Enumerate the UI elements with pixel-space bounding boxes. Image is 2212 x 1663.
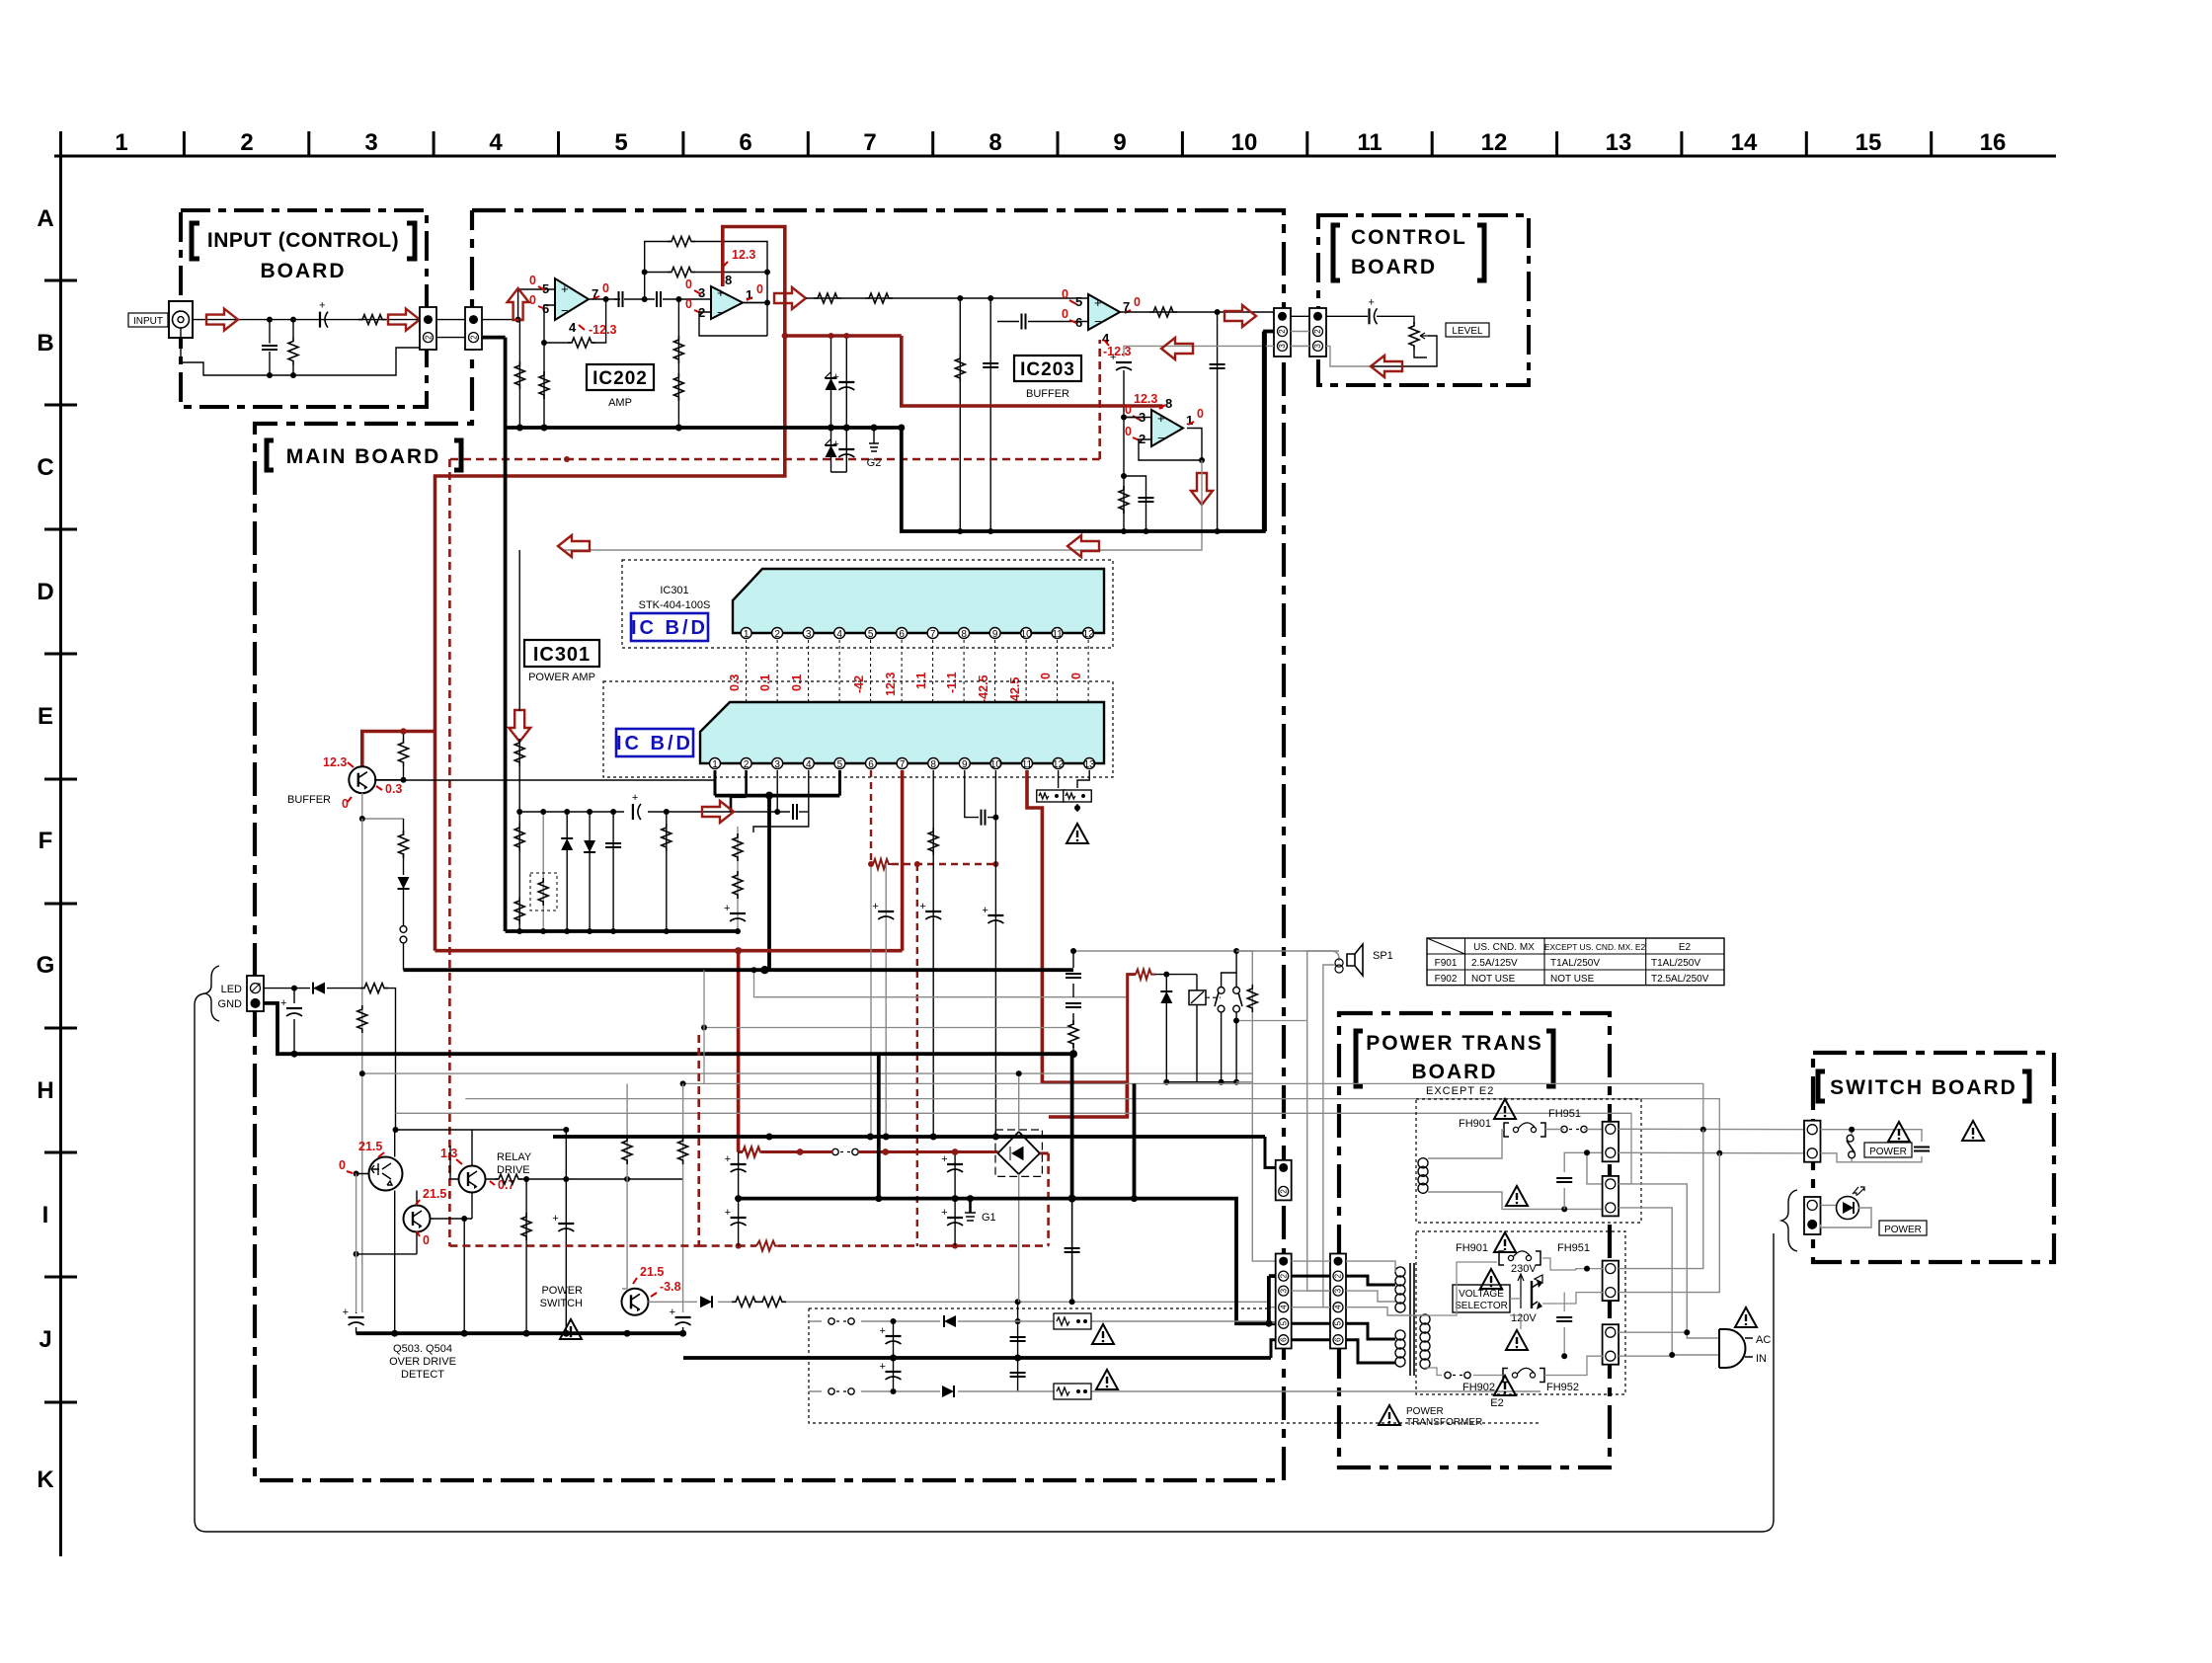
svg-text:4: 4 xyxy=(836,629,842,640)
maroon bus row F xyxy=(435,949,903,953)
ecap row1 xyxy=(880,1321,902,1358)
svg-text:0: 0 xyxy=(1069,673,1083,679)
svg-text:2: 2 xyxy=(774,629,780,640)
cap between xyxy=(1556,1152,1603,1209)
svg-text:−: − xyxy=(561,303,569,318)
pin labels U203b xyxy=(1139,396,1193,446)
POWER TRANSFORMER warn label xyxy=(1379,1405,1482,1428)
connector control board side CN xyxy=(1309,308,1326,356)
svg-text:LEVEL: LEVEL xyxy=(1452,326,1483,337)
svg-text:8: 8 xyxy=(961,629,967,640)
svg-text:+: + xyxy=(1157,411,1165,426)
svg-text:-42.5: -42.5 xyxy=(977,674,990,703)
bus 943 bank bottom xyxy=(506,929,738,933)
svg-text:BUFFER: BUFFER xyxy=(287,794,331,806)
row2 wire xyxy=(809,1390,1540,1392)
bus J left xyxy=(356,1331,683,1335)
wire col 713 xyxy=(703,970,705,1083)
bank: diode down xyxy=(584,809,595,934)
G2 ground xyxy=(867,428,882,469)
output wire w resistor xyxy=(1120,312,1274,316)
svg-text:STK-404-100S: STK-404-100S xyxy=(639,599,711,611)
svg-text:FH952: FH952 xyxy=(1546,1382,1579,1393)
svg-text:5: 5 xyxy=(1075,294,1082,309)
Q503 transistor xyxy=(369,1157,403,1191)
control board outline xyxy=(1318,215,1529,385)
IC202 designator xyxy=(587,364,654,409)
coil wiring xyxy=(1428,1130,1603,1159)
svg-text:2: 2 xyxy=(1279,1189,1288,1194)
svg-text:IC202: IC202 xyxy=(592,368,648,389)
LED wiring xyxy=(1821,1205,1872,1227)
svg-text:+: + xyxy=(1094,295,1102,310)
bank: cap xyxy=(605,809,621,934)
warn above AC IN xyxy=(1735,1307,1757,1327)
svg-text:FH901: FH901 xyxy=(1459,1118,1491,1130)
contact bottom rail xyxy=(1166,1081,1236,1083)
wires between connectors xyxy=(1291,315,1309,317)
svg-text:0: 0 xyxy=(529,274,536,287)
pin7 maroon xyxy=(901,770,905,951)
cap on gray drop xyxy=(1110,352,1145,421)
pin labels U202a xyxy=(542,281,598,335)
svg-text:IC301: IC301 xyxy=(660,585,688,596)
svg-text:1.3: 1.3 xyxy=(440,1147,457,1160)
wire conn to opamp xyxy=(482,289,555,320)
bank: resistor right xyxy=(662,809,671,934)
emitter long gray south xyxy=(361,819,363,1312)
svg-text:F: F xyxy=(39,828,53,854)
svg-text:7: 7 xyxy=(930,629,936,640)
svg-text:2.5A/125V: 2.5A/125V xyxy=(1471,958,1518,969)
maroon resistor after col747 xyxy=(739,1150,796,1153)
maroon coil feed xyxy=(1128,975,1136,1117)
red annots U203a xyxy=(1062,287,1141,358)
emitter wire down xyxy=(362,793,404,819)
right connectors CN (4x 2pin) xyxy=(1603,1122,1619,1365)
INPUT label xyxy=(128,313,168,327)
svg-text:1: 1 xyxy=(712,759,718,770)
svg-text:3: 3 xyxy=(806,629,812,640)
svg-text:5: 5 xyxy=(614,129,627,156)
bank: diode up xyxy=(561,809,573,934)
speaker wire 1 down xyxy=(1307,951,1339,1291)
pin8 column xyxy=(919,770,941,1140)
switch board title xyxy=(1818,1071,2029,1101)
svg-text:BOARD: BOARD xyxy=(261,260,347,282)
svg-text:INPUT: INPUT xyxy=(133,316,163,327)
pin6 gray continuation xyxy=(870,864,872,1137)
relay protection diode xyxy=(1160,975,1172,1085)
pin12 boxed resistor xyxy=(1037,770,1066,802)
svg-text:TRANSFORMER: TRANSFORMER xyxy=(1406,1417,1482,1428)
maroon out right dashed down xyxy=(1040,1151,1049,1154)
resistor col feeding rail xyxy=(514,550,524,815)
dashed vertical mid xyxy=(916,864,918,1246)
svg-text:8: 8 xyxy=(1165,396,1172,411)
rail row F with arrow and series cap xyxy=(519,811,790,813)
control board title xyxy=(1333,225,1484,280)
E2 dotted box xyxy=(1416,1231,1625,1394)
svg-text:AC: AC xyxy=(1756,1334,1771,1346)
svg-text:4: 4 xyxy=(1334,1305,1343,1309)
arrow left xyxy=(1371,356,1402,377)
svg-text:NOT USE: NOT USE xyxy=(1471,974,1516,985)
resistor xyxy=(360,984,388,993)
svg-text:3: 3 xyxy=(774,759,780,770)
svg-text:4: 4 xyxy=(806,759,812,770)
plug row1 xyxy=(829,1318,854,1324)
wire return xyxy=(181,337,420,375)
svg-text:0: 0 xyxy=(685,277,692,291)
power switch circuit xyxy=(1821,1127,1923,1162)
svg-text:−: − xyxy=(1157,431,1165,445)
pin3 wire xyxy=(776,770,778,812)
base wire xyxy=(375,779,403,781)
arrow to control board xyxy=(1224,305,1256,327)
series cap pin3-pin4 xyxy=(793,804,797,820)
pin9 cap to pin10 xyxy=(965,770,996,826)
wires between connector cols xyxy=(1292,1261,1330,1307)
relay drive wires xyxy=(450,1130,494,1219)
svg-text:7: 7 xyxy=(863,129,876,156)
svg-text:12.3: 12.3 xyxy=(1134,392,1157,406)
red leader marks xyxy=(538,286,599,330)
base resistor xyxy=(399,728,409,782)
selector contact xyxy=(1532,1280,1542,1309)
row letters xyxy=(37,205,55,1493)
IC301 boxed designator xyxy=(524,640,599,683)
red annots Q503 xyxy=(339,1140,382,1172)
warning under boxed resistors xyxy=(1066,824,1088,843)
svg-text:12: 12 xyxy=(1053,759,1065,770)
svg-text:5: 5 xyxy=(868,629,874,640)
svg-text:0.1: 0.1 xyxy=(758,674,772,691)
fusible resistor row2 xyxy=(1054,1384,1091,1399)
column ticks xyxy=(184,131,1931,156)
top ruler line xyxy=(54,155,2056,158)
LEVEL pot xyxy=(1371,322,1437,366)
feedback network above (two resistors) xyxy=(642,237,770,300)
op-amp U203b triangle xyxy=(1151,410,1183,446)
gray col right xyxy=(670,1083,691,1333)
selector arrow xyxy=(1518,1274,1524,1308)
6pin connector col1 CN xyxy=(1276,1254,1292,1349)
maroon resistor xyxy=(1136,970,1155,980)
transformer core xyxy=(1410,1263,1414,1376)
maroon loop op-amp U202b pin8 xyxy=(435,227,785,951)
bridge bottom wire xyxy=(1018,1174,1020,1302)
FH901 fuse E2 xyxy=(1456,1242,1590,1265)
Q504 transistor xyxy=(404,1206,431,1232)
thick return from pin2 down xyxy=(1265,332,1274,532)
caps on 1087 col xyxy=(1066,951,1081,1054)
IC B/D label lower xyxy=(616,729,693,756)
shunt res and cap xyxy=(1119,418,1154,535)
svg-text:0: 0 xyxy=(756,282,763,296)
svg-text:SWITCH: SWITCH xyxy=(540,1298,583,1309)
pin1 wire xyxy=(714,770,717,796)
6pin connector col2 CN xyxy=(1330,1254,1346,1349)
svg-text:POWER: POWER xyxy=(541,1285,583,1297)
left ruler line xyxy=(59,131,62,1556)
PS output chain xyxy=(649,1302,1276,1307)
svg-text:0.1: 0.1 xyxy=(790,674,804,691)
wires 6pin col2 to transformer xyxy=(1346,1276,1395,1285)
svg-text:E2: E2 xyxy=(1490,1397,1503,1409)
down arrow xyxy=(1191,473,1213,505)
POWER label switch xyxy=(1864,1143,1912,1157)
inline plug xyxy=(1561,1126,1587,1132)
vert components to bus xyxy=(521,1179,531,1333)
shunt cap from output junction xyxy=(1210,312,1225,534)
AC lines to switch board xyxy=(1619,1128,1804,1130)
bridge rectifier D901 xyxy=(995,1130,1042,1176)
down arrow into resistor column xyxy=(509,710,530,742)
svg-text:3: 3 xyxy=(1278,344,1287,349)
svg-text:IN: IN xyxy=(1756,1353,1767,1365)
arrow out xyxy=(388,309,420,331)
col resistors caps right of bank xyxy=(724,827,746,934)
secondary wiring E2 xyxy=(1425,1258,1576,1315)
speaker return to connector xyxy=(1236,1082,1276,1261)
svg-text:F901: F901 xyxy=(1435,958,1458,969)
svg-text:Q503. Q504: Q503. Q504 xyxy=(393,1343,452,1355)
svg-text:3: 3 xyxy=(1279,1288,1288,1293)
pin5 wire xyxy=(838,770,841,796)
Q503 wires xyxy=(356,1130,395,1333)
svg-text:GND: GND xyxy=(218,998,243,1010)
dotted enclosure xyxy=(809,1308,1540,1423)
svg-text:6: 6 xyxy=(1334,1337,1343,1342)
red annots U203b xyxy=(1125,403,1204,438)
row ticks xyxy=(44,280,77,1402)
gray link to SP columns xyxy=(1236,1020,1307,1022)
svg-text:21.5: 21.5 xyxy=(640,1265,664,1279)
svg-text:FH951: FH951 xyxy=(1557,1242,1590,1254)
transformer primary coils xyxy=(1395,1267,1405,1312)
maroon dashed rail row C xyxy=(450,340,1100,459)
wire pin2 connector2 xyxy=(1587,1152,1603,1184)
maroon branch to 340 rail xyxy=(785,334,902,338)
svg-text:120V: 120V xyxy=(1511,1312,1537,1324)
inline plug maroon xyxy=(832,1148,858,1154)
chain res diode plug xyxy=(398,819,410,970)
warnings xyxy=(560,1319,582,1339)
diode row1 xyxy=(944,1315,956,1327)
IC B/D label upper xyxy=(631,613,708,641)
svg-text:12: 12 xyxy=(1083,629,1095,640)
output wire xyxy=(589,298,620,300)
svg-text:12: 12 xyxy=(1481,129,1508,156)
svg-text:13: 13 xyxy=(1084,759,1096,770)
FH901 fuse xyxy=(1459,1108,1581,1137)
maroon dashed vertical left xyxy=(448,459,451,1246)
svg-text:0: 0 xyxy=(529,293,536,307)
dashed maroon row J xyxy=(449,1244,1048,1247)
svg-text:MAIN BOARD: MAIN BOARD xyxy=(286,445,441,468)
svg-text:0: 0 xyxy=(339,1158,346,1172)
bank: resistor xyxy=(514,812,524,934)
svg-text:IC B/D: IC B/D xyxy=(616,733,693,754)
svg-text:3: 3 xyxy=(364,129,377,156)
svg-text:11: 11 xyxy=(1022,759,1033,770)
svg-text:LED: LED xyxy=(221,984,242,995)
svg-text:CONTROL: CONTROL xyxy=(1351,226,1467,249)
gray col to PS base xyxy=(622,1083,632,1289)
svg-text:5: 5 xyxy=(1334,1320,1343,1325)
cap in switch loop xyxy=(1914,1148,1930,1151)
main board title xyxy=(267,440,461,470)
svg-text:2: 2 xyxy=(744,759,750,770)
series caps xyxy=(614,298,711,300)
svg-text:NOT USE: NOT USE xyxy=(1550,974,1595,985)
svg-text:11: 11 xyxy=(1357,129,1382,156)
svg-text:-42: -42 xyxy=(852,675,866,693)
series electrolytic cap xyxy=(319,300,328,328)
svg-text:6: 6 xyxy=(899,629,905,640)
svg-text:POWER: POWER xyxy=(1406,1406,1444,1417)
red annot 12.3 xyxy=(1134,392,1157,406)
dashed rail with resistor xyxy=(871,859,998,869)
verticals to lower connectors xyxy=(1619,1130,1703,1269)
IC301 lower package body xyxy=(700,702,1104,763)
long return wire down-left xyxy=(195,993,1774,1532)
brace xyxy=(205,966,219,1021)
emitter resistor on gray col xyxy=(357,1005,367,1033)
svg-text:10: 10 xyxy=(1231,129,1258,156)
fusible resistor row1 xyxy=(1054,1313,1091,1329)
svg-text:C: C xyxy=(37,454,53,481)
svg-text:FH902: FH902 xyxy=(1462,1382,1495,1393)
series ecap xyxy=(1326,316,1414,324)
bus row D thick xyxy=(902,332,1264,532)
wire 1144 xyxy=(396,1129,567,1131)
svg-text:1: 1 xyxy=(744,629,750,640)
inter-pin dashed columns xyxy=(747,640,1089,756)
pin13 boxed resistor xyxy=(1064,770,1092,812)
pin11 maroon to power xyxy=(1027,770,1127,1117)
Q504 wires xyxy=(356,1191,472,1254)
svg-text:2: 2 xyxy=(1334,1273,1343,1278)
gray line G right xyxy=(362,1072,1253,1074)
feedback resistor U202a xyxy=(541,299,606,428)
svg-text:0: 0 xyxy=(1197,407,1204,421)
relay drive transistor xyxy=(459,1166,486,1193)
svg-text:SWITCH BOARD: SWITCH BOARD xyxy=(1830,1076,2017,1099)
speaker wire 2 xyxy=(1323,965,1335,1307)
svg-text:6: 6 xyxy=(1279,1337,1288,1342)
2pin connector upper CN xyxy=(1276,1160,1292,1201)
dashed maroon vertical mid xyxy=(697,1035,700,1246)
relay contact 1 xyxy=(1215,973,1236,1082)
ecaps col 967 xyxy=(941,1148,963,1246)
thick bus pins 1-5 xyxy=(715,794,839,798)
connector CN on input board xyxy=(420,307,436,350)
brace xyxy=(1781,1190,1797,1251)
svg-text:FH951: FH951 xyxy=(1548,1108,1581,1120)
svg-text:H: H xyxy=(37,1077,53,1104)
LED GND connector xyxy=(247,976,264,1011)
svg-text:BUFFER: BUFFER xyxy=(1026,388,1069,400)
pin2 wire L xyxy=(731,770,747,812)
gray column near pin7 xyxy=(872,864,894,1140)
feedback loop pin2 xyxy=(1139,429,1202,461)
gray return line to main xyxy=(1124,346,1309,356)
bank: dotted-box resistor xyxy=(530,809,557,934)
svg-text:K: K xyxy=(37,1466,54,1493)
op-amp U202a xyxy=(555,278,589,320)
svg-text:9: 9 xyxy=(1113,129,1126,156)
svg-text:2: 2 xyxy=(1278,329,1287,334)
shunt res col xyxy=(955,298,965,534)
svg-text:-1.1: -1.1 xyxy=(945,672,959,693)
svg-text:10: 10 xyxy=(1021,629,1033,640)
svg-text:0: 0 xyxy=(1062,307,1068,321)
connector CN on main board xyxy=(465,307,482,350)
pin6 wire xyxy=(1271,1340,1276,1358)
cap right mid xyxy=(1556,1266,1590,1360)
connector to control board CN xyxy=(1274,308,1291,356)
svg-text:15: 15 xyxy=(1856,129,1882,156)
thick verticals xyxy=(877,1054,881,1198)
svg-text:14: 14 xyxy=(1731,129,1758,156)
svg-text:US. CND. MX: US. CND. MX xyxy=(1473,942,1535,953)
op-amp U203a xyxy=(1088,294,1120,330)
wire row 1040 xyxy=(704,1027,1073,1029)
row1 wire xyxy=(809,1321,1276,1323)
speaker SP1 xyxy=(1335,944,1393,976)
wire to relay xyxy=(1155,974,1197,976)
zener and cap pair lower xyxy=(825,428,854,472)
thick bus I xyxy=(739,1199,1276,1324)
LED connector CN xyxy=(1804,1197,1821,1234)
cap bottom left xyxy=(343,1307,364,1333)
svg-text:6: 6 xyxy=(739,129,751,156)
svg-text:0: 0 xyxy=(342,797,349,811)
red annots PS xyxy=(640,1265,681,1294)
svg-text:E: E xyxy=(38,703,53,730)
shunt ecap xyxy=(280,989,302,1058)
svg-text:T1AL/250V: T1AL/250V xyxy=(1651,958,1700,969)
svg-text:2: 2 xyxy=(424,335,433,340)
svg-text:10: 10 xyxy=(990,759,1002,770)
feed to upper 2pin xyxy=(1265,1137,1276,1167)
svg-text:9: 9 xyxy=(962,759,968,770)
buffer transistor Q xyxy=(349,766,375,793)
svg-text:INPUT (CONTROL): INPUT (CONTROL) xyxy=(207,229,399,252)
svg-text:3: 3 xyxy=(1334,1288,1343,1293)
input board outline xyxy=(181,210,427,407)
svg-text:2: 2 xyxy=(1279,1273,1288,1278)
shunt resistors mid xyxy=(673,296,683,431)
svg-text:G: G xyxy=(37,952,55,979)
svg-text:-12.3: -12.3 xyxy=(589,323,617,337)
svg-text:FH901: FH901 xyxy=(1456,1242,1488,1254)
svg-text:IC B/D: IC B/D xyxy=(631,617,708,639)
FH902 fuse xyxy=(1445,1356,1603,1393)
power trans board title xyxy=(1356,1031,1553,1086)
wire to IC203 with resistors xyxy=(806,297,1088,299)
capacitor shunt xyxy=(262,317,277,378)
warn triangles xyxy=(1888,1122,1910,1142)
svg-text:POWER: POWER xyxy=(1884,1225,1922,1235)
230V arrow xyxy=(1511,1263,1542,1283)
svg-text:8: 8 xyxy=(930,759,936,770)
svg-text:DETECT: DETECT xyxy=(401,1369,444,1381)
svg-text:8: 8 xyxy=(988,129,1001,156)
series resistor xyxy=(358,315,386,325)
